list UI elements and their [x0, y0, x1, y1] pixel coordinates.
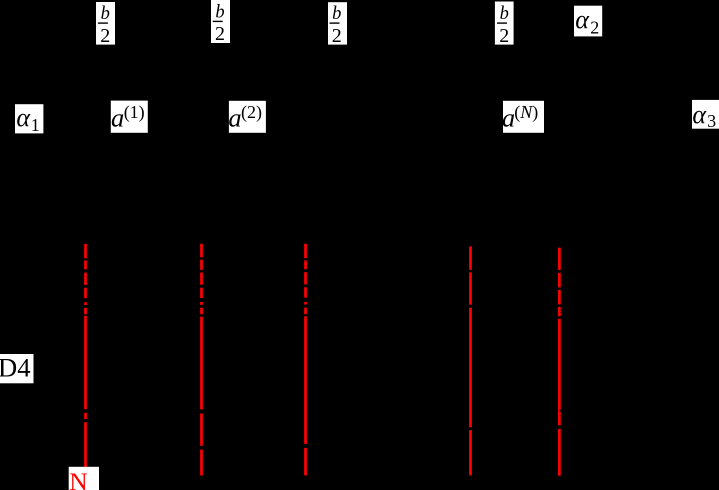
svg-text:α: α — [16, 103, 31, 132]
svg-text:2: 2 — [215, 23, 225, 45]
svg-text:N: N — [69, 467, 87, 490]
svg-text:2: 2 — [499, 25, 509, 47]
svg-text:a: a — [111, 103, 124, 133]
svg-text:b: b — [332, 4, 341, 24]
svg-text:α: α — [575, 5, 590, 34]
svg-text:a: a — [228, 103, 241, 133]
svg-text:(1): (1) — [124, 102, 145, 123]
svg-text:3: 3 — [707, 111, 716, 131]
svg-text:2: 2 — [332, 25, 342, 47]
svg-text:b: b — [101, 4, 110, 24]
svg-text:D4: D4 — [0, 354, 31, 383]
svg-text:b: b — [500, 4, 509, 24]
svg-text:2: 2 — [100, 25, 110, 47]
svg-text:(N): (N) — [514, 102, 538, 123]
svg-text:a: a — [502, 103, 515, 133]
svg-text:2: 2 — [590, 18, 599, 38]
svg-text:(2): (2) — [241, 102, 262, 123]
svg-text:α: α — [692, 100, 707, 129]
svg-text:1: 1 — [31, 115, 40, 135]
svg-text:b: b — [215, 3, 224, 23]
